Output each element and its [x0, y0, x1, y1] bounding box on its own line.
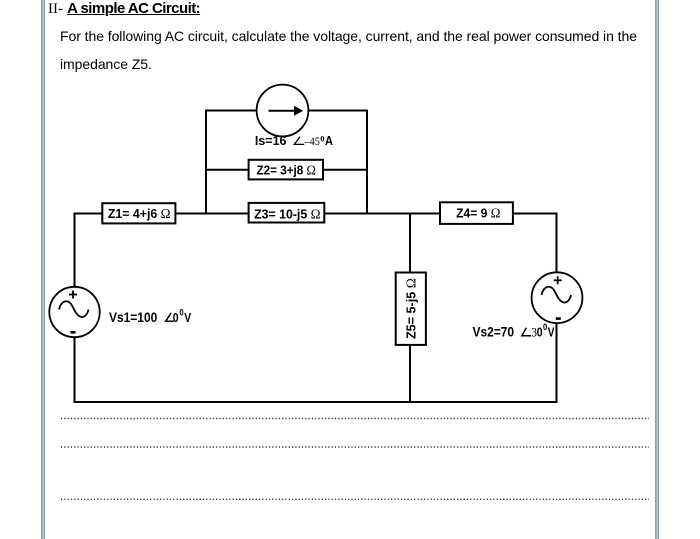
wire right vertical lower [556, 323, 558, 404]
wire left vertical upper [74, 213, 76, 288]
wire Z2 branch [206, 169, 367, 171]
svg-text:A: A [325, 134, 333, 148]
impedance Z2 [249, 160, 323, 180]
svg-text:Vs1=100: Vs1=100 [109, 309, 157, 325]
svg-text:Z3= 10-j5 Ω: Z3= 10-j5 Ω [254, 206, 320, 221]
wire top loop left vertical [205, 110, 207, 215]
wire bottom horizontal [74, 401, 557, 403]
wire top loop right segment [308, 110, 367, 112]
impedance Z4 [440, 202, 513, 224]
wire main horizontal [74, 213, 557, 215]
voltage source Vs2 [532, 272, 583, 323]
label Vs2 [473, 321, 555, 340]
impedance Z5 [396, 273, 426, 345]
svg-text:Z1= 4+j6 Ω: Z1= 4+j6 Ω [108, 206, 171, 221]
answer dotted line 1 [61, 418, 649, 420]
svg-text:V: V [184, 311, 191, 325]
label Vs1 [109, 307, 191, 326]
label Is [255, 133, 334, 148]
wire middle vertical lower [409, 345, 411, 403]
voltage source Vs1 [49, 287, 99, 337]
svg-text:Z5= 5-j5 Ω: Z5= 5-j5 Ω [403, 278, 418, 339]
answer dotted line 2 [61, 446, 649, 448]
svg-text:0: 0 [537, 325, 543, 339]
svg-text:Z2= 3+j8 Ω: Z2= 3+j8 Ω [256, 162, 316, 178]
wire left vertical lower [74, 337, 76, 404]
wire right vertical upper [556, 213, 558, 273]
current source Is [257, 85, 309, 137]
svg-text:0: 0 [320, 134, 324, 144]
wire top loop left segment [206, 110, 257, 112]
svg-text:–45: –45 [304, 135, 321, 148]
svg-text:Is=16: Is=16 [255, 133, 287, 148]
impedance Z1 [102, 203, 175, 223]
wire top loop right vertical [366, 110, 368, 215]
svg-text:V: V [548, 325, 555, 339]
impedance Z3 [249, 203, 325, 223]
svg-text:Vs2=70: Vs2=70 [473, 324, 515, 340]
wire middle vertical upper [409, 213, 411, 274]
answer dotted line 3 [61, 498, 649, 500]
svg-text:Z4= 9 Ω: Z4= 9 Ω [456, 205, 500, 221]
svg-text:0: 0 [179, 307, 184, 318]
svg-text:0: 0 [173, 311, 179, 325]
